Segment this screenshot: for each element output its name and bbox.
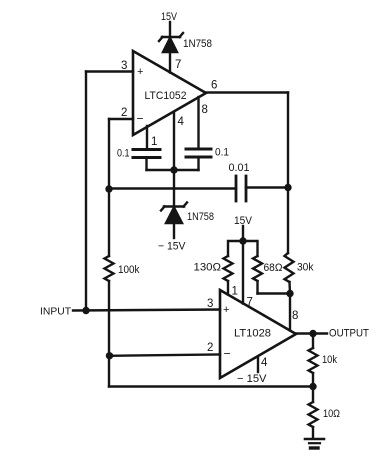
wire U2 pin 4 stub: [257, 357, 259, 373]
node J junction (output): [309, 330, 316, 337]
svg-text:68Ω: 68Ω: [264, 262, 283, 274]
svg-text:3: 3: [207, 298, 213, 310]
resistor R3 130ohm: [224, 256, 233, 295]
svg-text:0.1: 0.1: [215, 147, 229, 159]
wire U1 pin 6 output to right: [206, 91, 288, 93]
svg-text:− 15V: − 15V: [237, 373, 267, 385]
wire node G down to U2 pin 7: [242, 241, 244, 304]
wire left rail down to INPUT node: [85, 72, 87, 311]
zener diode D1 1N758 (top): [159, 33, 183, 52]
wire C3 to right rail: [246, 186, 288, 188]
svg-text:2: 2: [207, 342, 213, 354]
svg-text:+: +: [137, 66, 143, 78]
svg-text:7: 7: [175, 59, 181, 71]
wire zener D1 anode to U1 pin 7: [169, 52, 171, 73]
svg-text:4: 4: [178, 116, 185, 128]
svg-text:INPUT: INPUT: [40, 307, 71, 318]
svg-text:30k: 30k: [297, 262, 314, 274]
wire U2 output to node J: [296, 332, 327, 334]
op-amp U1 LTC1052: [133, 51, 206, 135]
svg-text:− 15V: − 15V: [158, 241, 186, 253]
node E junction (feedback): [106, 352, 113, 359]
svg-text:130Ω: 130Ω: [194, 262, 222, 274]
wire 15V to zener D1 cathode: [169, 22, 171, 37]
node C junction (pin4/caps): [170, 166, 177, 173]
resistor R7 10ohm: [309, 387, 318, 439]
svg-text:1: 1: [232, 286, 238, 298]
svg-text:100k: 100k: [118, 264, 140, 276]
node K junction (10k/10ohm/feedback): [309, 383, 316, 390]
wire node E down to bottom feedback line: [108, 356, 110, 387]
node G junction (15V distribution): [239, 237, 246, 244]
wire node C to zener D2 (crosses rail, no dot): [173, 170, 175, 206]
wire node G right to R4 top: [243, 241, 258, 256]
wire capacitor common rail: [147, 169, 199, 171]
resistor R6 10k: [309, 334, 318, 387]
capacitor C2 0.1 (right): [186, 149, 211, 170]
wire U1 pin 2 down to rail node B: [108, 119, 110, 189]
svg-text:3: 3: [121, 60, 127, 72]
svg-text:1N758: 1N758: [183, 38, 212, 50]
capacitor C3 0.01: [236, 176, 246, 201]
wire 15V stub down: [242, 226, 244, 241]
node D junction (C3/right rail): [284, 184, 291, 191]
svg-text:LT1028: LT1028: [234, 328, 271, 340]
zener diode D2 1N758 (bottom): [161, 203, 187, 224]
ground symbol: [305, 439, 324, 448]
svg-text:6: 6: [211, 80, 217, 92]
wire U1 pin 8 stub: [197, 97, 199, 149]
wire U1 pin 2 left: [109, 118, 133, 120]
node H junction (R4/R5/pin8): [286, 290, 293, 297]
node B junction (pin2/100k/rail): [105, 185, 112, 192]
node F junction (INPUT/left rail): [82, 307, 89, 314]
svg-text:8: 8: [202, 104, 208, 116]
svg-text:−: −: [137, 112, 144, 126]
wire INPUT line: [73, 310, 220, 311]
svg-text:LTC1052: LTC1052: [145, 90, 187, 102]
svg-text:7: 7: [247, 297, 253, 309]
svg-text:4: 4: [261, 357, 268, 369]
resistor R5 30k: [285, 253, 294, 294]
svg-text:1N758: 1N758: [187, 211, 214, 223]
wire node E to U2 pin 2: [109, 355, 220, 356]
svg-text:+: +: [223, 304, 229, 316]
wire right rail down to R5 30k: [287, 93, 289, 254]
wire U1 pin 3 to left rail: [86, 70, 133, 72]
svg-text:2: 2: [121, 107, 127, 119]
capacitor C1 0.1 (left): [133, 150, 160, 171]
svg-text:−: −: [224, 347, 231, 361]
wire node B rail to 0.01 cap: [109, 187, 236, 189]
svg-text:0.01: 0.01: [229, 162, 250, 174]
svg-text:10k: 10k: [322, 354, 337, 366]
resistor R4 68ohm: [253, 256, 262, 294]
svg-text:1: 1: [151, 136, 157, 148]
wire node G left to R3 top: [228, 241, 243, 256]
wire zener D2 anode down: [173, 223, 175, 238]
svg-text:0.1: 0.1: [117, 148, 130, 160]
wire R4 bottom to node H: [258, 292, 291, 294]
wire feedback bottom line: [109, 385, 313, 387]
wire U1 pin 4 down: [173, 112, 175, 170]
svg-text:8: 8: [292, 310, 298, 322]
wire 100k line below INPUT to feedback node E: [108, 310, 110, 356]
svg-text:OUTPUT: OUTPUT: [329, 328, 369, 340]
op-amp U2 LT1028: [220, 290, 296, 378]
svg-text:10Ω: 10Ω: [323, 408, 340, 420]
wire U1 pin 1 stub: [146, 126, 148, 150]
wire node H down to U2 pin 8: [289, 294, 291, 331]
resistor R1 100k: [105, 189, 114, 310]
